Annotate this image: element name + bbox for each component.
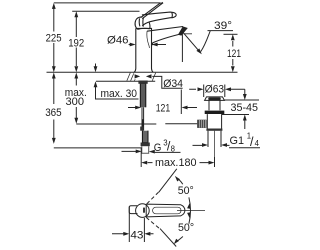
faucet handle dome: [135, 17, 150, 30]
svg-text:Ø63: Ø63: [205, 83, 224, 95]
spout inner curve: [147, 31, 150, 48]
lever thin blade tip: [160, 2, 163, 5]
svg-text:4: 4: [255, 139, 260, 148]
svg-text:121: 121: [156, 103, 171, 115]
dim 225 arrows: [52, 3, 56, 72]
waste ring: [205, 111, 225, 114]
dim O34 leader: [152, 76, 183, 88]
svg-text:50°: 50°: [178, 185, 194, 197]
dim 3545 ref bottom: [222, 114, 249, 116]
39deg arc: [201, 31, 210, 52]
deck hatch right: [152, 73, 156, 81]
39deg diag arrowhead: [196, 48, 201, 54]
spout tip bottom ledge: [184, 33, 193, 35]
dim max300 arrows: [74, 73, 78, 124]
ext line 225 top: [54, 2, 160, 4]
dim 43 ext lines: [129, 207, 144, 243]
ext line faucet axis: [140, 148, 142, 168]
svg-text:192: 192: [68, 38, 84, 50]
tv centerline: [177, 209, 205, 211]
tv lever: [129, 206, 137, 214]
dim 121 right shaft: [232, 41, 234, 66]
ext line waste axis: [214, 157, 216, 167]
svg-text:max.180: max.180: [155, 157, 197, 169]
waste tailpipe: [208, 131, 221, 147]
dim 121 lower left arrow: [128, 107, 136, 109]
svg-text:max. 30: max. 30: [101, 88, 138, 100]
spout aerator face: [178, 26, 188, 35]
stream vertical line: [181, 34, 183, 63]
faucet body top cap: [136, 28, 152, 46]
tv spout outline: [146, 204, 185, 217]
dim 43 arrows: [112, 233, 154, 235]
dim 192 arrows: [74, 11, 78, 72]
dim G114 arrows: [193, 145, 261, 147]
svg-text:35-45: 35-45: [231, 102, 259, 114]
dim O46 arrows: [130, 43, 158, 47]
middle arc: [189, 197, 191, 223]
popup rod line: [165, 123, 197, 125]
dim max30 arrows: [94, 66, 98, 87]
dim O46 line: [129, 44, 166, 46]
O63 dim line: [189, 88, 245, 90]
svg-text:/: /: [250, 135, 254, 149]
G38 nut: [141, 143, 150, 147]
deck bottom line: [96, 80, 155, 82]
hose top blob: [140, 127, 143, 131]
svg-text:Ø46: Ø46: [107, 34, 129, 46]
lower 50 dashed line: [146, 217, 160, 228]
dim max300 shaft: [75, 79, 77, 119]
G38 nipple threaded: [142, 131, 148, 143]
svg-text:225: 225: [46, 33, 62, 45]
upper 50 dashed line: [147, 192, 159, 204]
dim 365 arrows: [52, 73, 56, 144]
svg-text:43: 43: [130, 230, 143, 242]
hose level line: [76, 123, 156, 125]
dim max30 shafts: [96, 64, 139, 100]
waste axis line: [214, 131, 216, 167]
dim 225 shaft: [53, 9, 55, 67]
waste body: [207, 114, 221, 128]
lever main blade: [142, 12, 176, 26]
dim 3545 arrows: [243, 94, 247, 121]
dim max180 line: [148, 162, 209, 164]
shank collar under deck: [138, 81, 147, 84]
svg-text:8: 8: [171, 144, 175, 153]
svg-text:121: 121: [227, 48, 241, 60]
tv body circle: [136, 204, 150, 218]
spout top edge and underside: [147, 27, 183, 47]
middle arc arrowheads: [187, 202, 191, 219]
dim max180 arrows: [141, 161, 214, 165]
faucet body column: [134, 28, 153, 72]
waste flange: [205, 97, 225, 101]
svg-text:365: 365: [45, 107, 62, 119]
ext line hose end: [180, 90, 182, 115]
121 right ref line: [224, 33, 238, 35]
svg-text:300: 300: [66, 96, 85, 108]
upper arc arrowhead: [175, 176, 180, 182]
dim 3545 shafts: [244, 89, 246, 129]
dim G38 arrows and shelf: [122, 151, 181, 152]
39deg diagonal ray: [183, 32, 201, 53]
39deg horizontal ray: [208, 30, 234, 32]
lower solid line with arrow: [160, 229, 176, 247]
popup side knob: [197, 120, 206, 128]
hose end below nut: [142, 146, 149, 153]
O63 ext lines: [204, 85, 225, 98]
waste collar: [206, 129, 222, 131]
tv pivot mark: [143, 208, 145, 213]
lever thin blade: [141, 3, 162, 19]
tv spout inner: [153, 207, 181, 214]
svg-text:39°: 39°: [214, 20, 232, 32]
svg-text:Ø34: Ø34: [163, 78, 183, 90]
dim 3545 ref top: [225, 99, 260, 101]
base ref line 365: [54, 147, 142, 149]
ext line 192 top: [72, 10, 139, 12]
dim O34 arrows: [135, 74, 152, 78]
svg-text:G1: G1: [230, 135, 245, 147]
dim 365 shaft: [53, 79, 55, 142]
waste neck: [209, 100, 220, 110]
deck hatch left: [127, 73, 137, 81]
hose cross tick: [142, 119, 144, 129]
dim 121 right arrows: [231, 34, 235, 72]
dim 121 lower right arrow: [188, 107, 198, 109]
svg-text:50°: 50°: [178, 222, 194, 234]
hose rod: [142, 107, 144, 130]
shank threaded: [140, 81, 146, 107]
deck top line: [47, 71, 238, 73]
svg-text:G: G: [154, 142, 162, 154]
dim 192 shaft: [75, 17, 77, 66]
